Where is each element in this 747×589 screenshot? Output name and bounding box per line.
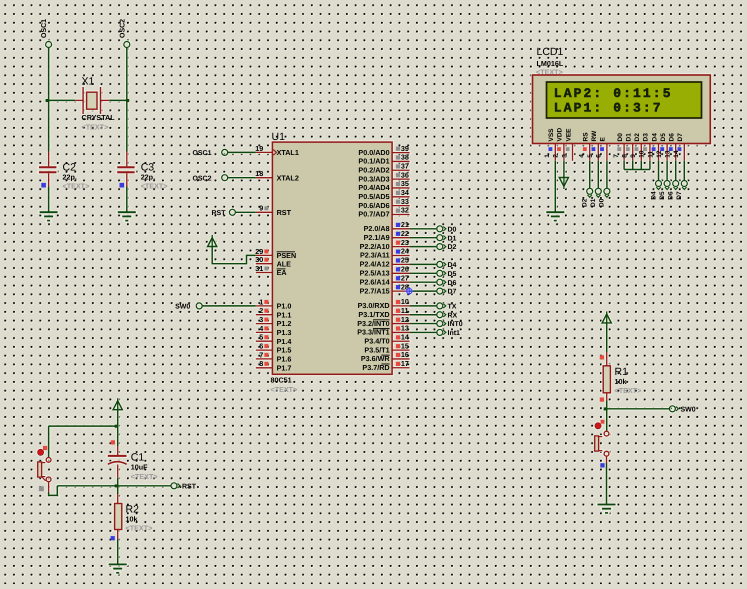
svg-text:26: 26 — [401, 265, 409, 274]
U1 pin 2 P1.1 — [256, 314, 273, 316]
wire P-pin to terminal D4 — [410, 263, 437, 265]
wire P-pin to terminal D0 — [410, 228, 437, 230]
ground (C2) — [40, 211, 58, 213]
svg-text:P0.6/AD6: P0.6/AD6 — [358, 201, 389, 210]
svg-text:1: 1 — [259, 297, 263, 306]
wire crystal horizontal right — [109, 99, 127, 101]
pin-state square R1 top (red) — [600, 355, 604, 359]
U1 pin 29 PSEN — [256, 254, 273, 256]
U1 pin 6 P1.5 — [256, 349, 273, 351]
svg-text:19: 19 — [255, 144, 263, 153]
svg-text:10k: 10k — [615, 377, 627, 386]
svg-text:22p.: 22p. — [141, 172, 155, 181]
svg-text:VDD: VDD — [557, 127, 564, 141]
wire P-pin to terminal D6 — [410, 281, 437, 283]
svg-text:LAP1: 0:3:7: LAP1: 0:3:7 — [554, 101, 663, 116]
svg-text:P1.1: P1.1 — [277, 310, 292, 319]
svg-text:35: 35 — [401, 179, 409, 188]
svg-text:<TEXT>: <TEXT> — [615, 386, 642, 395]
svg-text:12: 12 — [401, 315, 409, 324]
svg-text:34: 34 — [401, 188, 409, 197]
svg-text:4: 4 — [259, 324, 263, 333]
junction C1/R2/RST — [115, 484, 118, 487]
U1 pin 4 P1.3 — [256, 331, 273, 333]
svg-text:VEE: VEE — [565, 128, 572, 142]
U1 pin 24 P2.3/A11 — [392, 255, 410, 257]
wire OSC2 vertical — [126, 48, 128, 152]
svg-text:D2: D2 — [634, 133, 641, 142]
push-button (reset) — [46, 458, 51, 463]
svg-text:VSS: VSS — [548, 128, 555, 142]
wire crystal horizontal left — [49, 99, 76, 101]
svg-text:27: 27 — [401, 273, 409, 282]
U1 pin 28 P2.7/A15 — [392, 290, 410, 292]
ground (LCD VSS) — [546, 211, 564, 213]
terminal D7 — [437, 288, 443, 294]
svg-text:<TEXT>: <TEXT> — [63, 181, 90, 190]
svg-text:11: 11 — [401, 306, 409, 315]
resistor R1 (10k) — [606, 352, 608, 366]
svg-text:CRYSTAL: CRYSTAL — [82, 113, 116, 122]
U1 pin 31 EA — [256, 272, 273, 274]
wire SW0 horizontal — [607, 408, 670, 410]
svg-text:<TEXT>: <TEXT> — [141, 181, 168, 190]
capacitor C1 (10uF) — [111, 440, 115, 444]
U1 pin 27 P2.6/A14 — [392, 281, 410, 283]
origin marker (blue crosshair) on P2.7 wire — [405, 287, 413, 295]
svg-text:D1: D1 — [626, 133, 633, 142]
U1 pin 23 P2.2/A10 — [392, 246, 410, 248]
svg-text:Int1: Int1 — [448, 330, 461, 337]
svg-text:RW: RW — [591, 130, 598, 142]
svg-text:2: 2 — [553, 154, 560, 158]
svg-text:P3.4/T0: P3.4/T0 — [364, 336, 389, 345]
U1 pin 39 P0.0/AD0 — [392, 152, 410, 154]
wires LCD RS/RW/E to terminals — [589, 161, 591, 188]
svg-text:LCD1: LCD1 — [537, 46, 564, 58]
svg-text:9: 9 — [259, 204, 263, 213]
junction at OSC1/crystal — [46, 99, 49, 102]
pin-state square C2 — [41, 183, 46, 188]
svg-text:P1.7: P1.7 — [277, 363, 292, 372]
junction R1/button/SW0 — [604, 407, 607, 410]
terminal SW0 (right) — [669, 406, 675, 412]
svg-text:P0.3/AD3: P0.3/AD3 — [358, 174, 389, 183]
power symbol (reset circuit) — [117, 398, 119, 410]
svg-text:33: 33 — [401, 197, 409, 206]
terminal OSC1 (top) — [46, 42, 52, 48]
U1 pin 16 P3.6/WR — [392, 358, 410, 360]
svg-text:1: 1 — [544, 154, 551, 158]
svg-text:D6: D6 — [669, 133, 676, 142]
svg-text:D4: D4 — [448, 262, 457, 269]
svg-text:8: 8 — [622, 154, 629, 158]
capacitor C3 — [126, 152, 128, 167]
svg-text:OSC1: OSC1 — [192, 150, 211, 157]
ground (SW0 button) — [598, 504, 616, 506]
wire P-pin to terminal INT0 — [410, 323, 437, 325]
svg-text:P1.2: P1.2 — [277, 319, 292, 328]
svg-text:P2.4/A12: P2.4/A12 — [360, 260, 390, 269]
U1 pin 32 P0.7/AD7 — [392, 213, 410, 215]
U1 pin 22 P2.1/A9 — [392, 237, 410, 239]
svg-text:<TEXT>: <TEXT> — [271, 385, 298, 394]
svg-text:24: 24 — [401, 247, 409, 256]
svg-text:U1: U1 — [272, 131, 286, 143]
svg-text:D7: D7 — [677, 133, 684, 142]
pin-state square R2 (blue) — [111, 536, 115, 540]
svg-text:P2.0/A8: P2.0/A8 — [364, 224, 390, 233]
svg-text:P1.6: P1.6 — [277, 355, 292, 364]
wire P-pin to terminal D7 — [410, 290, 437, 292]
U1 pin 25 P2.4/A12 — [392, 263, 410, 265]
wire RST to pin9 — [236, 211, 256, 213]
svg-text:P3.5/T1: P3.5/T1 — [364, 345, 389, 354]
U1 pin 33 P0.6/AD6 — [392, 205, 410, 207]
svg-text:10uF: 10uF — [131, 463, 148, 472]
wire power to PSEN — [212, 247, 256, 264]
pin-state square R1 bottom (red) — [600, 398, 604, 402]
svg-text:38: 38 — [401, 153, 409, 162]
svg-text:14: 14 — [673, 150, 680, 158]
svg-text:XTAL1: XTAL1 — [277, 148, 299, 157]
pin-state square button bottom (gray) — [39, 486, 44, 491]
wire OSC1 to XTAL1 — [222, 149, 228, 155]
svg-text:3: 3 — [561, 154, 568, 158]
wire button bottom to RST net — [48, 482, 50, 492]
U1 pin 14 P3.4/T0 — [392, 340, 410, 342]
U1 pin 19 XTAL1 — [256, 151, 273, 153]
U1 pin 35 P0.4/AD4 — [392, 187, 410, 189]
svg-text:P1.0: P1.0 — [277, 302, 292, 311]
button red actuator dot (right) — [595, 423, 601, 429]
svg-text:D7: D7 — [448, 289, 457, 296]
svg-text:36: 36 — [401, 170, 409, 179]
U1 pin 9 RST — [256, 211, 273, 213]
svg-text:5: 5 — [259, 333, 263, 342]
wire P-pin to terminal D2 — [410, 246, 437, 248]
svg-text:2: 2 — [259, 306, 263, 315]
svg-text:37: 37 — [401, 161, 409, 170]
pin-state square C3 — [120, 183, 125, 188]
svg-text:P0.4/AD4: P0.4/AD4 — [358, 183, 389, 192]
svg-text:P3.0/RXD: P3.0/RXD — [358, 301, 390, 310]
svg-text:D4: D4 — [651, 133, 658, 142]
svg-text:6: 6 — [259, 342, 263, 351]
svg-text:EA: EA — [277, 268, 287, 277]
svg-text:22p.: 22p. — [63, 172, 77, 181]
terminal SW0 (left) — [196, 303, 202, 309]
svg-text:P1.5: P1.5 — [277, 346, 292, 355]
svg-text:D0: D0 — [617, 133, 624, 142]
power symbol (R1 pull-up) — [606, 311, 608, 323]
svg-text:P2.7/A15: P2.7/A15 — [360, 286, 390, 295]
pin-state square button top (red) — [43, 446, 47, 450]
svg-text:D5: D5 — [448, 271, 457, 278]
svg-text:P1.3: P1.3 — [277, 328, 292, 337]
svg-text:P2.5/A13: P2.5/A13 — [360, 269, 390, 278]
wire OSC2 to XTAL2 — [222, 175, 228, 181]
wire down to button top contact — [48, 426, 50, 458]
svg-text:25: 25 — [401, 256, 409, 265]
resistor R2 (10k) — [117, 486, 119, 494]
U1 pin 30 ALE — [256, 263, 273, 265]
push-button (SW0) — [604, 431, 609, 436]
svg-text:P0.0/AD0: P0.0/AD0 — [358, 148, 389, 157]
svg-text:P2.6/A14: P2.6/A14 — [360, 277, 390, 286]
terminal Int1 — [437, 329, 443, 335]
svg-text:23: 23 — [401, 238, 409, 247]
svg-text:D3: D3 — [643, 133, 650, 142]
svg-text:11: 11 — [647, 151, 654, 158]
svg-text:P2.2/A10: P2.2/A10 — [360, 242, 390, 251]
wire P-pin to terminal TX — [410, 305, 437, 307]
terminal RX — [437, 312, 443, 318]
wire C3 to ground — [126, 187, 128, 213]
svg-text:32: 32 — [401, 206, 409, 215]
button red actuator dot — [38, 449, 44, 455]
terminal RST (reset circuit) — [171, 483, 177, 489]
U1 pin 5 P1.4 — [256, 340, 273, 342]
svg-text:D1: D1 — [590, 198, 597, 207]
terminal D4 — [437, 261, 443, 267]
terminal D1 — [437, 235, 443, 241]
svg-text:OSC1: OSC1 — [41, 19, 48, 38]
ground (C3) — [118, 211, 136, 213]
svg-text:13: 13 — [665, 150, 672, 158]
svg-text:ALE: ALE — [277, 259, 292, 268]
U1 pin 15 P3.5/T1 — [392, 349, 410, 351]
wire P-pin to terminal D5 — [410, 272, 437, 274]
wire junction to button (right) — [606, 409, 608, 431]
svg-text:SW0: SW0 — [175, 304, 190, 311]
svg-text:D1: D1 — [448, 235, 457, 242]
svg-text:6: 6 — [596, 154, 603, 158]
wire LCD VSS to ground — [554, 161, 556, 212]
svg-text:D6: D6 — [448, 280, 457, 287]
svg-text:RST: RST — [277, 208, 292, 217]
terminal TX — [437, 303, 443, 309]
svg-text:P0.7/AD7: P0.7/AD7 — [358, 210, 389, 219]
pin-state square right button bottom (blue) — [600, 463, 604, 467]
svg-text:3: 3 — [259, 315, 263, 324]
svg-text:10: 10 — [639, 150, 646, 158]
terminal D6 — [437, 279, 443, 285]
junction at OSC2/crystal — [126, 99, 129, 102]
svg-text:7: 7 — [613, 154, 620, 158]
svg-text:D5: D5 — [659, 191, 666, 200]
U1 pin 12 P3.2/INT0 — [392, 323, 410, 325]
svg-text:10k: 10k — [126, 514, 138, 523]
U1 pin 17 P3.7/RD — [392, 367, 410, 369]
terminal D0 — [437, 226, 443, 232]
terminal D2 — [437, 244, 443, 250]
svg-text:D0: D0 — [599, 198, 606, 207]
wire P-pin to terminal D1 — [410, 237, 437, 239]
svg-text:P0.2/AD2: P0.2/AD2 — [358, 165, 389, 174]
svg-text:LAP2: 0:11:5: LAP2: 0:11:5 — [554, 86, 673, 101]
svg-text:P1.4: P1.4 — [277, 337, 292, 346]
svg-text:OSC2: OSC2 — [192, 175, 211, 182]
wire power to R1 — [606, 323, 608, 352]
svg-text:<TEXT>: <TEXT> — [82, 123, 109, 132]
svg-text:18: 18 — [255, 169, 263, 178]
svg-text:OSC2: OSC2 — [119, 19, 126, 38]
svg-text:P3.1/TXD: P3.1/TXD — [358, 310, 389, 319]
svg-text:SW0: SW0 — [681, 407, 696, 414]
svg-text:INT0: INT0 — [448, 321, 463, 328]
svg-text:39: 39 — [401, 144, 409, 153]
wire OSC1 vertical — [48, 48, 50, 152]
power symbol (LCD VDD, pointing down) — [563, 161, 565, 178]
svg-text:P2.1/A9: P2.1/A9 — [364, 233, 390, 242]
svg-text:<TEXT>: <TEXT> — [126, 523, 153, 532]
svg-text:RS: RS — [583, 132, 590, 142]
microcontroller U1 80C51 body — [272, 142, 392, 374]
U1 pin 7 P1.6 — [256, 358, 273, 360]
U1 pin 13 P3.3/INT1 — [392, 331, 410, 333]
wire button to ground (right) — [606, 456, 608, 463]
U1 pin 34 P0.5/AD5 — [392, 196, 410, 198]
wire power down to C1 — [117, 410, 119, 446]
svg-text:D5: D5 — [660, 133, 667, 142]
svg-text:P0.5/AD5: P0.5/AD5 — [358, 192, 389, 201]
wire R2 to ground — [117, 539, 119, 564]
U1 pin 11 P3.1/TXD — [392, 314, 410, 316]
wire SW0 to P1.0 — [203, 305, 256, 307]
svg-text:30: 30 — [255, 255, 263, 264]
svg-text:D2: D2 — [448, 244, 457, 251]
svg-text:12: 12 — [656, 150, 663, 158]
svg-text:D2: D2 — [582, 198, 589, 207]
U1 pin 18 XTAL2 — [256, 177, 273, 179]
svg-text:D0: D0 — [448, 226, 457, 233]
crystal X1 — [75, 99, 83, 101]
terminal D5 — [437, 270, 443, 276]
capacitor C2 — [48, 152, 50, 167]
svg-text:<TEXT>: <TEXT> — [131, 472, 158, 481]
wire RST horizontal — [57, 485, 171, 487]
svg-text:28: 28 — [401, 282, 409, 291]
wire P-pin to terminal Int1 — [410, 331, 437, 333]
wire R1 to SW0 junction — [606, 401, 608, 409]
svg-text:RST: RST — [182, 484, 197, 491]
U1 pin 8 P1.7 — [256, 367, 273, 369]
ground (R2) — [109, 563, 127, 565]
wire C1 to RST junction — [117, 478, 119, 486]
svg-text:RX: RX — [448, 312, 458, 319]
svg-text:XTAL2: XTAL2 — [277, 173, 299, 182]
power symbol (PSEN pull-up) — [211, 235, 213, 247]
svg-text:9: 9 — [630, 154, 637, 158]
svg-text:5: 5 — [587, 154, 594, 158]
pin-state square right button top (red) — [601, 420, 605, 424]
svg-text:14: 14 — [401, 332, 409, 341]
svg-text:7: 7 — [259, 350, 263, 359]
svg-text:13: 13 — [401, 324, 409, 333]
svg-text:22: 22 — [401, 229, 409, 238]
svg-text:D4: D4 — [650, 191, 657, 200]
svg-text:P2.3/A11: P2.3/A11 — [360, 251, 390, 260]
svg-text:RST: RST — [212, 210, 227, 217]
svg-text:80C51: 80C51 — [271, 375, 292, 384]
U1 pin 37 P0.2/AD2 — [392, 169, 410, 171]
svg-text:E: E — [600, 137, 607, 142]
terminal RST (near U1) — [229, 209, 235, 215]
wire P-pin to terminal RX — [410, 314, 437, 316]
U1 pin 26 P2.5/A13 — [392, 272, 410, 274]
terminal INT0 — [437, 321, 443, 327]
wire LCD D0-D3 tied (comb) — [623, 161, 625, 170]
junction power/branch — [115, 425, 118, 428]
terminal OSC2 (top) — [124, 42, 130, 48]
svg-text:8: 8 — [259, 359, 263, 368]
svg-text:X1: X1 — [82, 76, 95, 88]
wire C2 to ground — [48, 187, 50, 213]
svg-text:16: 16 — [401, 350, 409, 359]
svg-text:4: 4 — [579, 154, 586, 158]
svg-text:P0.1/AD1: P0.1/AD1 — [358, 157, 389, 166]
svg-text:TX: TX — [448, 304, 457, 311]
U1 pin 38 P0.1/AD1 — [392, 160, 410, 162]
wires LCD D4-D7 to terminals — [658, 161, 660, 180]
svg-text:D7: D7 — [676, 191, 683, 200]
LCD display window — [547, 82, 702, 118]
svg-text:17: 17 — [401, 359, 409, 368]
U1 pin 3 P1.2 — [256, 323, 273, 325]
U1 pin 10 P3.0/RXD — [392, 305, 410, 307]
svg-text:31: 31 — [255, 264, 263, 273]
U1 pin 1 P1.0 — [256, 305, 273, 307]
U1 pin 36 P0.3/AD3 — [392, 178, 410, 180]
LCD1 body — [533, 75, 711, 144]
svg-text:10: 10 — [401, 297, 409, 306]
svg-text:15: 15 — [401, 341, 409, 350]
wire branch to button (horizontal) — [49, 425, 118, 427]
svg-text:D6: D6 — [668, 191, 675, 200]
svg-text:21: 21 — [401, 220, 409, 229]
U1 pin 21 P2.0/A8 — [392, 228, 410, 230]
